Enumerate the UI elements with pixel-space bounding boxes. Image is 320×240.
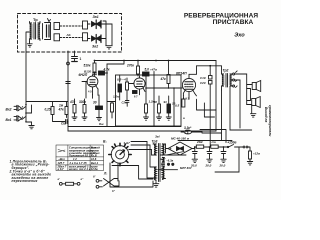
capacitor C2 xyxy=(93,73,97,75)
resistor R1 510k xyxy=(84,61,97,76)
svg-text:а' б': а' б' xyxy=(160,157,166,161)
capacitor 30 (dark) xyxy=(93,95,103,118)
notes text xyxy=(9,160,52,184)
svg-text:5,0: 5,0 xyxy=(145,68,150,72)
speaker Gr1 xyxy=(252,81,261,92)
PSU transformer Tp3 xyxy=(152,140,166,182)
svg-text:1м: 1м xyxy=(59,104,64,108)
second stage small parts xyxy=(111,75,130,118)
staircase wires to PSU xyxy=(197,99,217,110)
svg-text:0,25: 0,25 xyxy=(45,108,51,112)
svg-text:+150в: +150в xyxy=(227,141,236,145)
svg-text:Зв1: Зв1 xyxy=(93,15,99,19)
svg-text:МЛ7-63У: МЛ7-63У xyxy=(180,166,193,170)
svg-text:125 Г: 125 Г xyxy=(58,161,65,165)
return wire to PSU xyxy=(230,129,252,131)
svg-text:270к: 270к xyxy=(126,64,134,68)
svg-text:Rш: Rш xyxy=(99,122,104,126)
svg-text:Тр2: Тр2 xyxy=(223,69,229,73)
pickup element rect 2 xyxy=(83,33,88,41)
svg-text:3,3к*: 3,3к* xyxy=(184,126,192,130)
svg-text:Аб: Аб xyxy=(66,33,71,37)
capacitor Csh xyxy=(53,118,105,127)
svg-text:Тр: Тр xyxy=(33,17,38,22)
grounds third stage xyxy=(144,117,172,120)
cathode resistor of V3 xyxy=(172,96,185,107)
svg-text:Вх2: Вх2 xyxy=(6,108,12,112)
wire B+ to rectifier xyxy=(200,130,226,143)
svg-text:а б-Г: а б-Г xyxy=(58,167,65,171)
wire PSU return xyxy=(215,147,239,172)
ground (tank input) xyxy=(27,42,32,48)
input switch wires xyxy=(22,102,68,123)
spring line 1 xyxy=(60,25,83,27)
svg-text:20,0: 20,0 xyxy=(219,164,226,168)
amplifier right edge wire xyxy=(215,61,217,132)
svg-text:6Н2П: 6Н2П xyxy=(79,73,88,77)
input connector circle xyxy=(67,62,70,65)
mains switch Vk xyxy=(104,179,120,187)
heater feed verticals xyxy=(147,142,153,179)
inner echo box xyxy=(116,75,182,126)
svg-text:91: 91 xyxy=(164,100,168,104)
note component chain 2 switch xyxy=(93,175,116,194)
junction dots PSU xyxy=(194,146,225,148)
grid wire to output tube xyxy=(146,88,182,126)
svg-text:+12в: +12в xyxy=(253,152,260,156)
capacitor 5.0 (dark) xyxy=(143,68,150,77)
svg-text:ГД: ГД xyxy=(185,130,188,134)
resistor R8 vertical at bus xyxy=(137,61,140,77)
svg-text:Вх1: Вх1 xyxy=(6,118,12,122)
svg-text:3,3к*: 3,3к* xyxy=(124,141,131,145)
svg-text:с/и: с/и xyxy=(212,140,217,144)
amplifier unit left edge wire xyxy=(67,51,69,131)
tube V2 triode xyxy=(129,76,146,95)
fuse/lamp GD xyxy=(184,126,202,134)
speaker Gr2 xyxy=(252,97,261,108)
resistor R3 4.7k (dark) xyxy=(99,68,110,76)
svg-text:47к: 47к xyxy=(58,108,65,112)
tube V2 cathode dark resistor xyxy=(133,91,138,94)
feedthrough capacitor C1 xyxy=(72,51,82,62)
svg-text:30: 30 xyxy=(93,101,97,105)
svg-text:4 5: 4 5 xyxy=(88,90,92,94)
tank pickup wires xyxy=(103,21,112,46)
series capacitor on input wire xyxy=(66,82,70,84)
svg-text:~Вкл: ~Вкл xyxy=(58,157,65,161)
driver transducer xyxy=(43,19,51,40)
svg-text:ПРИСТАВКА: ПРИСТАВКА xyxy=(213,19,254,26)
wire screen grid feed xyxy=(204,103,214,117)
wire GD return xyxy=(202,132,221,133)
svg-text:510к: 510к xyxy=(84,64,91,68)
electrolytic C f2 xyxy=(205,147,213,168)
transformer Tp1 xyxy=(30,22,41,42)
wires from switch chain to Tp3 xyxy=(117,180,119,182)
svg-text:С19: С19 xyxy=(200,76,206,80)
svg-text:Тр3: Тр3 xyxy=(152,140,158,144)
svg-text:1: 1 xyxy=(80,57,82,61)
amplifier bottom bus xyxy=(68,130,216,132)
resistor R-in2 vertical xyxy=(58,102,69,118)
pickup element rect 1 xyxy=(83,21,88,29)
tube V1 triode xyxy=(82,75,98,95)
switch wires to PSU xyxy=(129,142,153,156)
output transformer Tp2 xyxy=(222,69,238,91)
ground (speakers) xyxy=(251,105,256,118)
input jack Vh1 xyxy=(6,116,24,122)
svg-text:Эхо: Эхо xyxy=(234,33,245,39)
resistor R6 xyxy=(69,99,76,117)
spring line 2 xyxy=(60,37,83,39)
tube V1 pin wires xyxy=(86,82,98,99)
test point wire xyxy=(153,72,155,127)
resistor R7 330k xyxy=(79,99,86,117)
resistor R5 1M xyxy=(59,104,64,108)
svg-text:1 9 2: 1 9 2 xyxy=(183,96,190,100)
svg-text:12,6: 12,6 xyxy=(91,157,97,161)
svg-text:20,0: 20,0 xyxy=(205,164,212,168)
reverb tank dashed enclosure xyxy=(18,14,122,53)
resistor R11 xyxy=(167,61,170,88)
electrolytic C f3 xyxy=(219,147,227,168)
third stage resistors xyxy=(145,76,171,117)
svg-text:МС-40-160 м: МС-40-160 м xyxy=(171,137,190,141)
svg-text:0,5: 0,5 xyxy=(175,104,180,108)
socket bottom wiring xyxy=(110,163,153,187)
svg-text:~6,3в: ~6,3в xyxy=(166,159,174,163)
svg-text:2 а б в 1-Г 25: 2 а б в 1-Г 25 xyxy=(69,161,88,165)
svg-text:С20: С20 xyxy=(200,81,206,85)
bridge rectifier xyxy=(166,142,197,155)
svg-text:переключения: переключения xyxy=(12,179,38,183)
B plus feed wire xyxy=(178,140,232,142)
switch V3 on B+ xyxy=(224,145,248,148)
svg-text:б': б' xyxy=(93,175,96,179)
electrolytic C f1 xyxy=(190,147,198,168)
ground (tank pickups) xyxy=(106,46,112,49)
svg-text:1 2: 1 2 xyxy=(73,157,77,161)
svg-text:Зв2: Зв2 xyxy=(92,45,98,49)
resistor R-in vertical xyxy=(45,102,55,119)
svg-text:0,5—4: 0,5—4 xyxy=(117,78,126,82)
speaker link wire xyxy=(247,85,253,105)
table xyxy=(56,145,104,171)
speaker feed wires xyxy=(230,74,247,130)
drive element rect 2 xyxy=(54,34,60,41)
wires inside inner box xyxy=(107,61,124,127)
ground (input) xyxy=(29,122,34,129)
svg-text:+47в: +47в xyxy=(150,68,157,72)
tube V3 pentode xyxy=(182,74,196,100)
svg-text:Положение В2,1 Г: Положение В2,1 Г xyxy=(69,154,93,158)
resistor R out xyxy=(247,147,260,165)
ground row first stage xyxy=(72,117,102,121)
anode wire to output transformer xyxy=(189,66,222,75)
svg-text:24В: 24В xyxy=(196,140,203,144)
filter resistor Rf2 xyxy=(211,140,226,148)
svg-text:С2а: С2а xyxy=(122,101,128,105)
bottom bus wire xyxy=(68,127,184,133)
input jack Vh2 xyxy=(6,105,24,111)
svg-text:47к: 47к xyxy=(160,77,167,81)
svg-text:+: + xyxy=(170,147,172,151)
input switch junction dots xyxy=(25,104,27,123)
note component chain 1 xyxy=(58,177,84,185)
Tp2 primary bottom wire down xyxy=(221,90,223,141)
ground (PSU transformer) xyxy=(153,182,159,188)
B+ bus xyxy=(95,60,217,62)
grid line junction dots xyxy=(173,87,175,89)
rotary switch V2 diagram xyxy=(103,140,131,166)
svg-text:330к: 330к xyxy=(79,100,86,104)
pickup transducer Zv1 xyxy=(88,15,103,29)
svg-text:12,6в: 12,6в xyxy=(91,167,98,171)
svg-text:Выход на: Выход на xyxy=(264,107,268,122)
svg-text:1,0м: 1,0м xyxy=(113,95,120,99)
pickup transducer Zv2 xyxy=(88,35,103,49)
svg-text:6П14П: 6П14П xyxy=(176,72,187,76)
filter resistor Rf1 xyxy=(196,140,210,148)
wire tank output down xyxy=(26,32,30,102)
svg-text:включ. эхо 2-1 в: включ. эхо 2-1 в xyxy=(69,167,91,171)
svg-text:6 7: 6 7 xyxy=(134,95,138,99)
svg-text:В120: В120 xyxy=(84,70,92,74)
drive element rect 1 xyxy=(54,23,60,30)
svg-text:Зв!: Зв! xyxy=(155,135,160,139)
svg-text:Гр,В: Гр,В xyxy=(91,154,97,158)
svg-text:громкоговорители: громкоговорители xyxy=(268,105,272,136)
svg-text:Л₁: Л₁ xyxy=(103,172,107,176)
table text xyxy=(57,146,101,172)
heater markers xyxy=(158,152,193,171)
svg-text:Вкл,1: Вкл,1 xyxy=(91,161,99,165)
B+ bus junction dots xyxy=(94,60,212,67)
capacitors C19 C20 xyxy=(200,65,212,146)
